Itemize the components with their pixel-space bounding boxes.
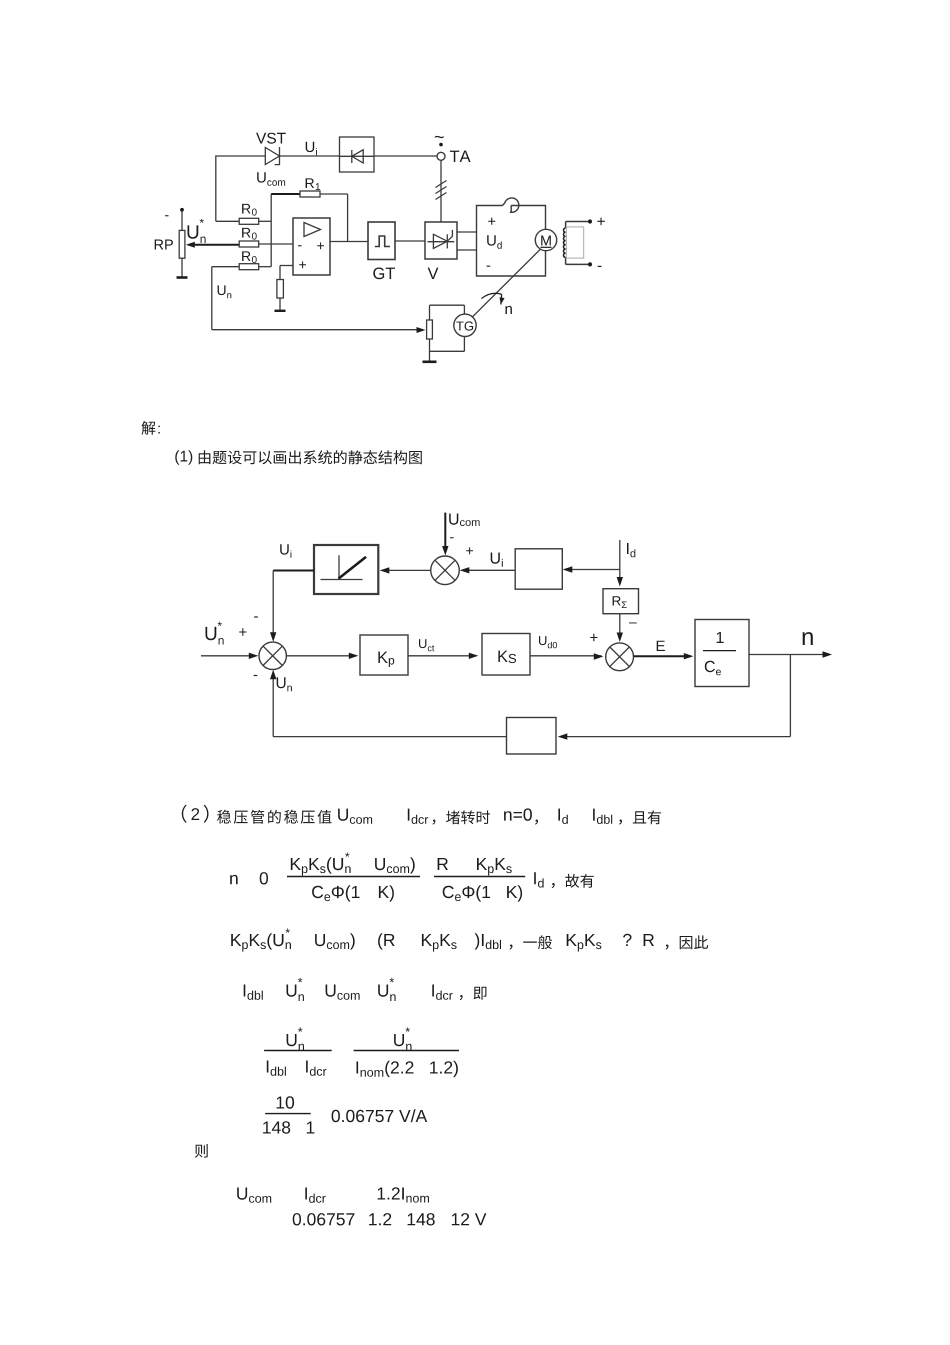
block 1/Ce <box>695 620 749 687</box>
feedback wire up to S1 <box>272 671 274 736</box>
motor M <box>535 229 556 250</box>
label + (S2) <box>590 634 597 641</box>
label Ui (circuit) <box>306 142 317 156</box>
input arrow Un* <box>201 655 257 657</box>
equation line 2: KpKs(Un* Ucom) <box>231 934 266 952</box>
equation: 0.06757 1.2 148 12 V <box>293 1213 355 1225</box>
resistor R0 (bottom) <box>212 266 239 268</box>
label - (S1 upper) <box>254 616 258 617</box>
wire E from S2 to 1/Ce <box>634 655 692 657</box>
field winding: bottom lead, terminal dot, - <box>566 263 590 265</box>
armature box Ud <box>477 206 546 277</box>
label - (S1 lower) <box>254 675 258 676</box>
node TA (AC terminal) <box>437 152 445 160</box>
label TA <box>450 151 471 162</box>
label Un* reference (circuit) <box>188 225 206 243</box>
loop symbol on top edge of Ud box <box>503 198 519 213</box>
label Un (circuit) <box>218 285 232 298</box>
wire: top rail to VST anode <box>216 155 265 157</box>
wire sensor box to S0 <box>462 569 516 571</box>
feedback wire left segment <box>273 736 506 738</box>
label E <box>657 641 665 651</box>
text: ze (then) <box>195 1144 208 1158</box>
text: jie (solution) <box>142 421 156 435</box>
block Kp <box>360 635 408 675</box>
field winding core rectangle <box>566 227 583 258</box>
feedback block (speed sensor) <box>507 718 557 755</box>
equation line 3: Idbl Un* Ucom <box>244 985 263 1000</box>
block R-sigma <box>603 589 639 614</box>
text line (2): statement <box>182 805 187 823</box>
wire op-amp output to GT <box>330 241 368 243</box>
tacho generator TG <box>454 314 476 336</box>
wire S0 to limiter <box>382 569 431 571</box>
wire limiter to S1 <box>273 570 314 572</box>
label + (S0 right) <box>466 547 473 554</box>
feedback wire right segment <box>560 736 791 738</box>
wire GT to V <box>395 240 425 242</box>
resistor R0 (middle) <box>239 241 259 247</box>
equation: 10/(148 1) 0.06757 V/A <box>277 1096 295 1108</box>
wire R-sigma to S2 <box>619 614 621 640</box>
balance resistor <box>277 280 284 299</box>
wire VST to rectifier box <box>280 155 340 157</box>
label Ui (limiter) <box>280 544 291 558</box>
label RP <box>155 240 173 250</box>
Id drop line into R-sigma <box>619 540 621 584</box>
equation: Ucom Idcr 1.2Inom <box>237 1188 271 1203</box>
label n (output) <box>803 632 813 645</box>
label Ui (into S0) <box>491 553 503 567</box>
wire: Un feedback to tacho pot <box>211 267 213 330</box>
RP wiper arrow <box>193 244 239 246</box>
label Ud0 <box>539 636 557 648</box>
potentiometer RP <box>181 210 183 231</box>
block limiter (saturation) <box>314 545 378 594</box>
wires V to armature box <box>457 231 477 233</box>
wire Kp to Ks <box>408 655 477 657</box>
equation: fraction Un*/(Inom(2.2 1.2)) <box>394 1034 411 1051</box>
label + (Ud) <box>488 218 495 225</box>
field winding coil <box>565 222 567 229</box>
equation line 1: n 0 fractions <box>230 875 237 884</box>
summing junction S2 <box>606 643 634 671</box>
rotation arc with arrow <box>482 293 502 298</box>
thyristor rectifier box V <box>425 222 457 259</box>
resistor R0 (top) <box>216 220 239 222</box>
resistor R1 feedback <box>271 193 300 195</box>
label Ucom and drop arrow into S0 <box>449 514 479 527</box>
wire n output <box>749 654 830 656</box>
ground (tacho) <box>429 351 431 361</box>
label Un* (block input) <box>206 627 224 645</box>
field winding: top lead, terminal dot, + <box>566 221 590 223</box>
label GT <box>373 268 395 280</box>
block Ks <box>482 634 530 676</box>
label + (S1 input) <box>239 628 246 635</box>
blocking diode box <box>340 137 375 172</box>
wire box to TA terminal <box>374 155 437 157</box>
wire Id to sensor box <box>565 569 620 571</box>
label Id <box>627 543 635 557</box>
wire Ks to S2 <box>530 655 602 657</box>
block current sensor (unlabelled) <box>515 549 562 589</box>
label VST <box>256 133 286 144</box>
wire S1 to Kp <box>286 655 356 657</box>
tacho potentiometer <box>427 320 433 339</box>
pulse symbol in GT <box>375 236 390 247</box>
summing junction S0 <box>431 556 460 585</box>
ground (op-amp) <box>275 310 286 312</box>
label - (S0 top) <box>450 537 453 538</box>
summing node vertical wire <box>270 194 272 267</box>
label - (Ud) <box>487 266 491 267</box>
feedback tap down <box>789 655 791 737</box>
trigger unit GT box <box>368 222 395 260</box>
label Un (block) <box>277 677 292 691</box>
text: (1) caption <box>175 450 192 464</box>
thyristor symbol <box>428 241 455 243</box>
op-amp A <box>293 218 330 275</box>
wire TA down to V with winding break marks <box>440 160 442 222</box>
label n (speed) <box>506 306 512 314</box>
motor shaft to tacho <box>471 249 541 318</box>
label Uct <box>419 639 434 651</box>
equation: fraction Un*/(Idbl Idcr) <box>287 1034 304 1051</box>
label Ucom <box>257 172 285 186</box>
tacho loop wires <box>430 304 465 306</box>
summing junction S1 <box>259 642 286 669</box>
label - (RP top) <box>165 215 168 216</box>
label V <box>428 268 439 279</box>
diode VST (zener) <box>265 148 279 165</box>
label - (S2 from R-sigma) <box>629 622 637 625</box>
label Ud <box>487 235 502 249</box>
op-amp noninverting input wire <box>280 265 293 267</box>
diode inside box (pointing left) <box>340 155 375 157</box>
